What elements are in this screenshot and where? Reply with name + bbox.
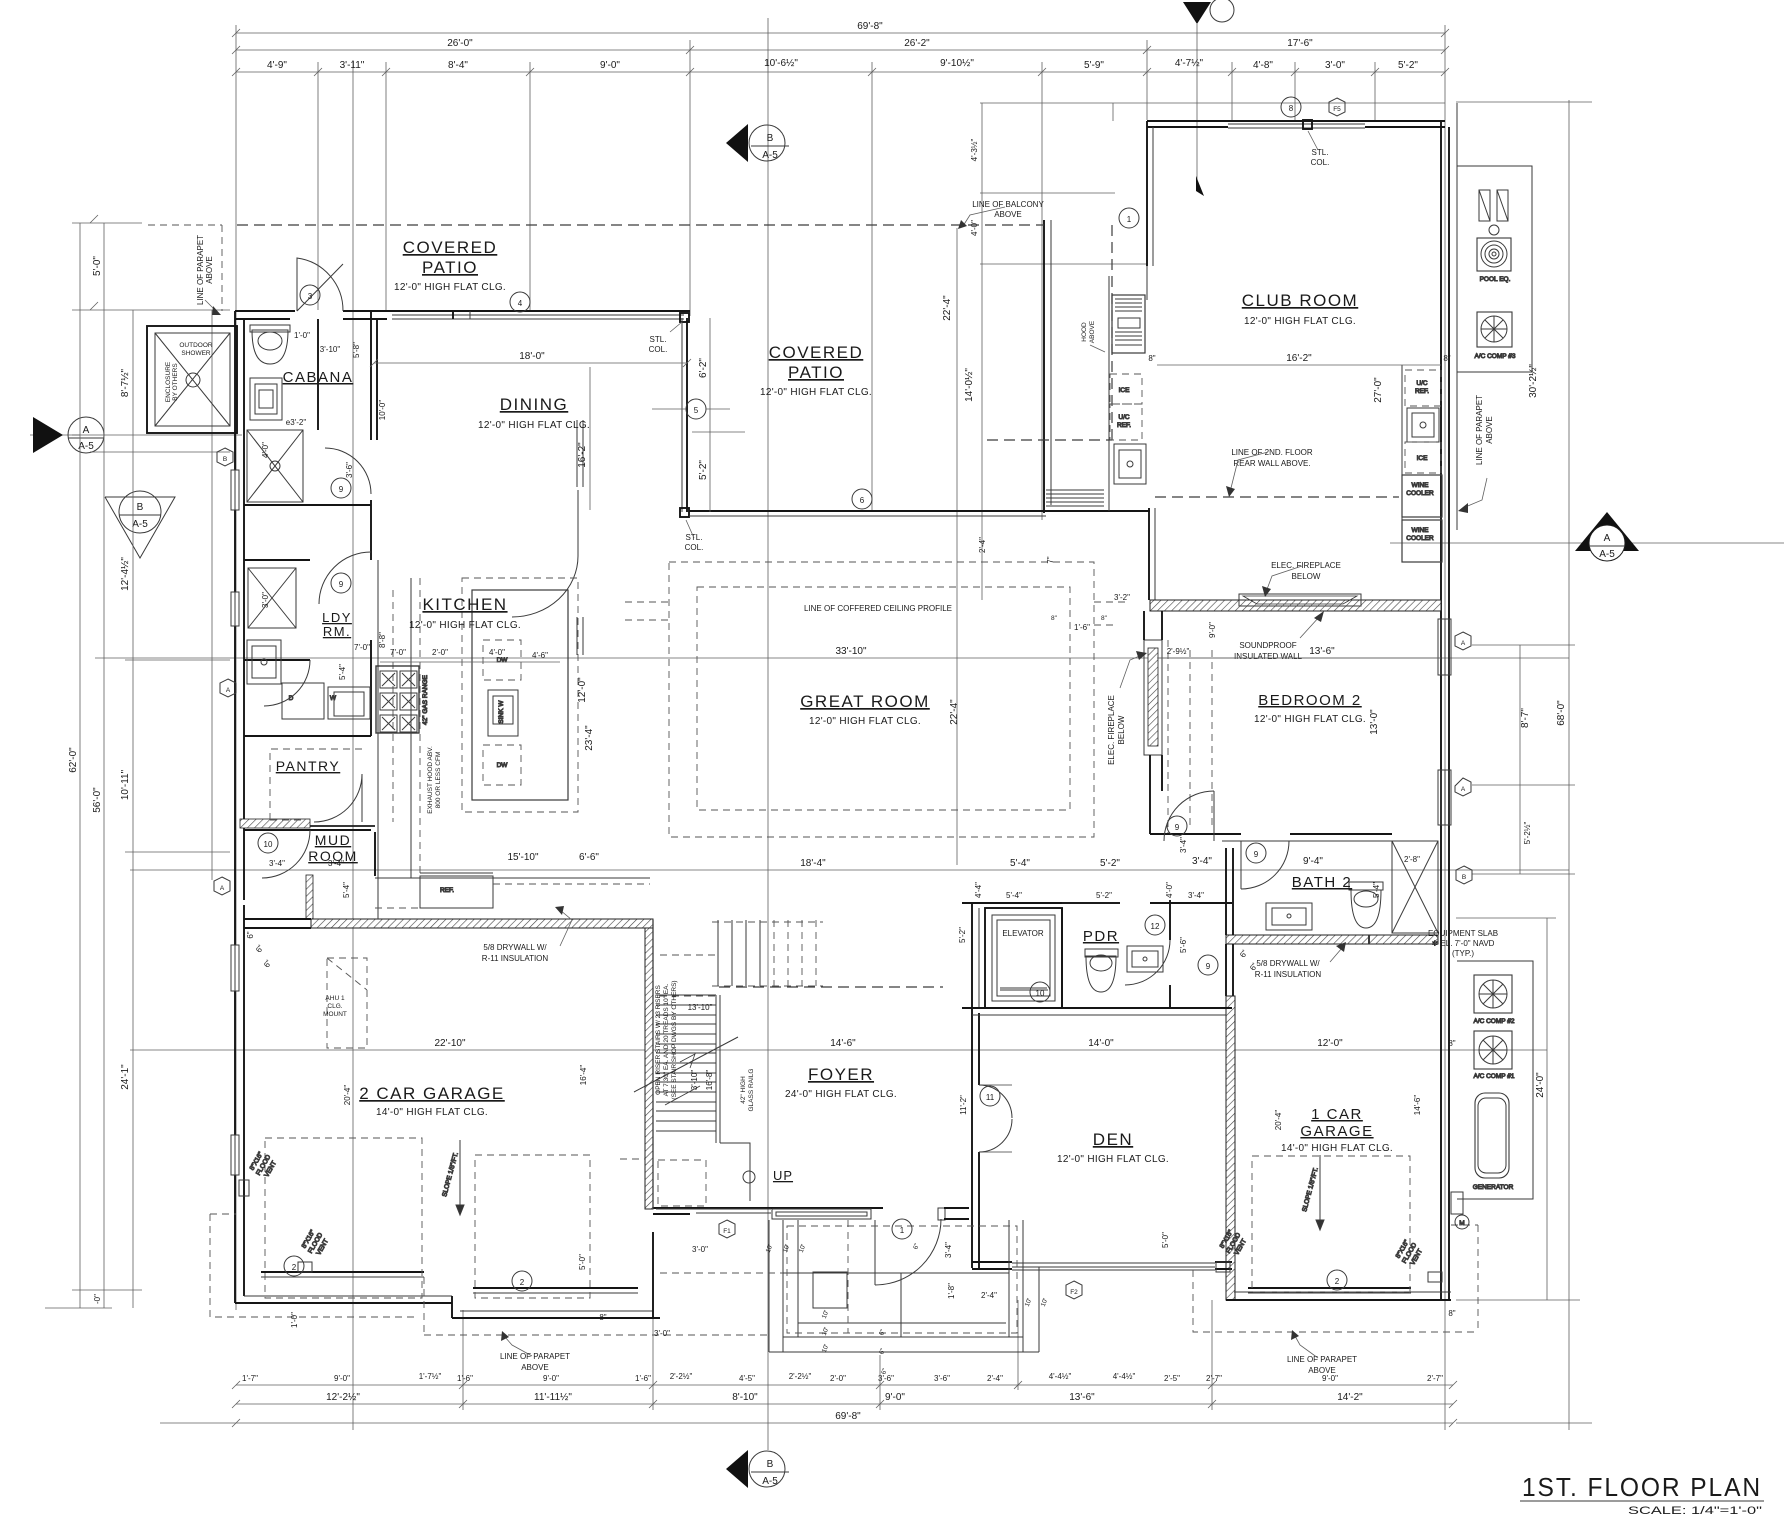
kitchen counter wall line — [378, 560, 411, 919]
dimension tick marks top — [232, 29, 1449, 76]
mudroom west return wall — [244, 832, 375, 928]
svg-text:F5: F5 — [1333, 106, 1341, 113]
svg-text:56'-0": 56'-0" — [92, 787, 103, 813]
svg-text:2'-7": 2'-7" — [1206, 1374, 1222, 1383]
svg-text:4'-4": 4'-4" — [974, 882, 983, 898]
grid bubble 9b — [331, 573, 351, 593]
svg-text:POOL EQ.: POOL EQ. — [1480, 276, 1511, 283]
svg-text:18'-0": 18'-0" — [519, 351, 545, 362]
svg-text:1: 1 — [900, 1226, 905, 1235]
room label ldy rm — [322, 610, 352, 639]
dimension line bottom 69-8 — [160, 1411, 1453, 1423]
svg-text:5'-4": 5'-4" — [1010, 858, 1030, 869]
svg-text:12'-4½": 12'-4½" — [120, 557, 131, 591]
svg-text:U/C: U/C — [1118, 414, 1130, 421]
room label den — [1057, 1130, 1169, 1165]
foyer stair dims — [688, 1003, 713, 1012]
club room north wall — [980, 103, 1445, 128]
grid bubble 2b — [512, 1271, 532, 1291]
svg-text:17'-6": 17'-6" — [1287, 38, 1313, 49]
svg-text:COOLER: COOLER — [1406, 490, 1434, 497]
svg-text:INSULATED WALL: INSULATED WALL — [1234, 652, 1303, 661]
svg-text:4: 4 — [518, 299, 523, 308]
svg-text:9: 9 — [1254, 850, 1259, 859]
svg-text:SHOWER: SHOWER — [181, 350, 211, 357]
pdr fixtures — [1085, 946, 1163, 992]
den double doors — [979, 1085, 1012, 1152]
stairs lower run — [634, 995, 755, 1209]
svg-text:GLASS RAILG: GLASS RAILG — [748, 1069, 755, 1112]
svg-text:A/C COMP #2: A/C COMP #2 — [1473, 1018, 1514, 1025]
svg-text:STL.: STL. — [1312, 148, 1329, 157]
svg-text:3'-0": 3'-0" — [692, 1245, 708, 1254]
dining east wall (patio colonnade) — [682, 318, 687, 512]
svg-text:8": 8" — [599, 1313, 606, 1322]
svg-text:16'-8": 16'-8" — [705, 1070, 714, 1091]
great room east fireplace column — [1144, 611, 1162, 834]
svg-text:COL.: COL. — [685, 543, 704, 552]
svg-text:SCALE: 1/4"=1'-0": SCALE: 1/4"=1'-0" — [1628, 1505, 1762, 1517]
svg-text:WINE: WINE — [1412, 482, 1430, 489]
svg-text:9'-0": 9'-0" — [600, 60, 620, 71]
svg-text:8: 8 — [1289, 104, 1294, 113]
svg-text:14'-6": 14'-6" — [1413, 1095, 1422, 1116]
note 5/8 drywall left — [482, 906, 572, 963]
svg-text:A-5: A-5 — [1599, 549, 1615, 560]
svg-text:4'-7½": 4'-7½" — [1175, 58, 1204, 69]
svg-text:B: B — [767, 133, 774, 144]
svg-text:5'-2": 5'-2" — [698, 460, 709, 480]
grid hexagon A left — [220, 679, 236, 697]
svg-text:ABOVE: ABOVE — [994, 210, 1022, 219]
svg-text:DW: DW — [497, 762, 509, 769]
svg-text:1'-6": 1'-6" — [457, 1374, 473, 1383]
svg-text:5'-8": 5'-8" — [352, 342, 361, 358]
svg-text:LINE OF BALCONY: LINE OF BALCONY — [972, 200, 1044, 209]
grid hexagon B left — [217, 448, 233, 466]
svg-text:BATH 2: BATH 2 — [1292, 874, 1352, 891]
svg-text:5'-2": 5'-2" — [1100, 858, 1120, 869]
svg-text:ABOVE: ABOVE — [521, 1363, 549, 1372]
outdoor shower enclosure — [147, 326, 237, 433]
cabana sink — [250, 378, 282, 420]
svg-text:HOOD: HOOD — [1081, 322, 1088, 342]
flood vent marks garage — [239, 1150, 1442, 1282]
grid hexagon B right — [1455, 778, 1472, 884]
dimension line left inner — [120, 310, 133, 1308]
svg-text:1'-8": 1'-8" — [947, 1283, 956, 1299]
svg-text:14'-2": 14'-2" — [1337, 1392, 1363, 1403]
section line A left horizontal — [30, 434, 242, 436]
long horizontal reference line 33-10 — [95, 657, 1569, 659]
club room right counters — [1402, 365, 1442, 562]
svg-text:800 OR LESS CFM: 800 OR LESS CFM — [435, 752, 442, 809]
svg-text:3'-6": 3'-6" — [934, 1374, 950, 1383]
svg-text:1'-6": 1'-6" — [1074, 623, 1090, 632]
interior dim 6-2 and 5-2 right of dining — [692, 318, 745, 512]
interior dim 1-6 jog — [1051, 615, 1108, 632]
title: 1ST. FLOOR PLAN — [1520, 1472, 1764, 1517]
svg-text:10: 10 — [264, 840, 273, 849]
svg-text:A: A — [220, 885, 225, 892]
svg-text:12'-0" HIGH FLAT CLG.: 12'-0" HIGH FLAT CLG. — [478, 420, 590, 431]
svg-text:COOLER: COOLER — [1406, 535, 1434, 542]
svg-text:KITCHEN: KITCHEN — [422, 595, 507, 614]
svg-text:5'-4": 5'-4" — [342, 882, 351, 898]
svg-text:PANTRY: PANTRY — [276, 758, 341, 774]
note stl col dining top — [649, 322, 682, 354]
vertical dim line 4-0 outdoor kitchen — [970, 103, 1148, 600]
svg-text:DEN: DEN — [1093, 1130, 1133, 1149]
svg-text:9'-0": 9'-0" — [885, 1392, 905, 1403]
dimension line top 69-8 — [236, 21, 1445, 33]
svg-text:8": 8" — [1443, 354, 1450, 363]
cabana small dims — [261, 331, 387, 680]
note line of parapet bottom-left — [500, 1331, 570, 1372]
svg-text:MUD: MUD — [315, 832, 351, 848]
laundry machines — [282, 683, 370, 719]
svg-text:1: 1 — [1127, 215, 1132, 224]
svg-text:4'-6": 4'-6" — [532, 651, 548, 660]
room label club room — [1242, 291, 1358, 327]
garage ahu dashed — [327, 958, 367, 1048]
svg-text:3'-0": 3'-0" — [1325, 60, 1345, 71]
room label covered patio top-left — [394, 238, 506, 293]
svg-text:3'-4": 3'-4" — [1192, 856, 1212, 867]
note line of parapet bottom-right — [1287, 1330, 1357, 1375]
svg-text:LINE OF PARAPET: LINE OF PARAPET — [1475, 395, 1484, 465]
svg-text:2'-7": 2'-7" — [1427, 1374, 1443, 1383]
svg-text:62'-0": 62'-0" — [68, 747, 79, 773]
extension lines bottom — [463, 1300, 1212, 1410]
line of balcony above dashed — [237, 224, 1044, 226]
svg-text:A-5: A-5 — [78, 441, 94, 452]
steel column dining SE — [680, 508, 689, 517]
svg-text:3: 3 — [308, 292, 313, 301]
svg-text:4'-4½": 4'-4½" — [1113, 1372, 1136, 1381]
svg-text:R-11 INSULATION: R-11 INSULATION — [1255, 970, 1322, 979]
dimension line right 68-0 — [1456, 102, 1592, 1423]
svg-text:7'-0": 7'-0" — [354, 643, 370, 652]
coffered ceiling dashed outer — [669, 562, 1094, 837]
svg-text:A/C COMP #1: A/C COMP #1 — [1473, 1073, 1514, 1080]
svg-text:B: B — [137, 502, 144, 513]
svg-text:4'-0": 4'-0" — [261, 442, 270, 458]
svg-text:5'-0": 5'-0" — [1161, 1232, 1170, 1248]
bedroom2 entry door arc — [1164, 791, 1214, 841]
svg-text:26'-0": 26'-0" — [447, 38, 473, 49]
svg-text:AHU 1: AHU 1 — [325, 995, 345, 1002]
svg-text:5'-4": 5'-4" — [338, 664, 347, 680]
svg-text:2'-5": 2'-5" — [1164, 1374, 1180, 1383]
svg-text:5: 5 — [694, 406, 699, 415]
svg-text:9'-0": 9'-0" — [1322, 1374, 1338, 1383]
dimension line top third row — [236, 58, 1445, 72]
svg-text:13'-6": 13'-6" — [1069, 1392, 1095, 1403]
svg-text:DW: DW — [497, 657, 509, 664]
svg-text:GENERATOR: GENERATOR — [1473, 1184, 1514, 1191]
interior dim 18-0 — [370, 351, 691, 367]
svg-text:27'-0": 27'-0" — [1373, 377, 1384, 403]
svg-text:7'-0": 7'-0" — [390, 648, 406, 657]
den walls — [962, 903, 1232, 1270]
svg-text:CLUB ROOM: CLUB ROOM — [1242, 291, 1358, 310]
svg-text:PATIO: PATIO — [788, 363, 844, 382]
svg-text:20'-4": 20'-4" — [343, 1085, 352, 1106]
svg-text:2'-2½": 2'-2½" — [789, 1372, 812, 1381]
section marker B bottom — [726, 1450, 789, 1488]
svg-text:5'-2½": 5'-2½" — [1523, 822, 1532, 845]
svg-text:5'-4": 5'-4" — [1006, 891, 1022, 900]
svg-text:ICE: ICE — [1417, 455, 1429, 462]
mudroom-garage hatched wall — [311, 919, 653, 928]
svg-text:ABOVE: ABOVE — [1485, 416, 1494, 444]
stair west wall hatched — [645, 919, 653, 1209]
svg-text:9'-0": 9'-0" — [334, 1374, 350, 1383]
svg-text:F1: F1 — [723, 1228, 731, 1235]
svg-text:30'-2½": 30'-2½" — [1528, 364, 1539, 398]
svg-text:26'-2": 26'-2" — [904, 38, 930, 49]
svg-text:8'-7½": 8'-7½" — [120, 368, 131, 397]
svg-text:2'-4": 2'-4" — [978, 537, 987, 553]
svg-text:PDR: PDR — [1083, 928, 1119, 945]
kitchen island — [472, 590, 568, 800]
svg-text:A: A — [226, 687, 231, 694]
svg-text:3'-6": 3'-6" — [345, 462, 354, 478]
section marker A right — [1575, 512, 1639, 561]
svg-text:EXHAUST HOOD ABV.: EXHAUST HOOD ABV. — [427, 746, 434, 814]
svg-text:SINK W: SINK W — [498, 700, 505, 724]
grid bubble 9e hall — [1198, 955, 1218, 975]
svg-text:AT 7.30" EA. AND 20 TREADS 10": AT 7.30" EA. AND 20 TREADS 10" EA. — [663, 983, 670, 1096]
svg-text:2'-9½": 2'-9½" — [1167, 647, 1190, 656]
svg-text:5'-2": 5'-2" — [1096, 891, 1112, 900]
great room west boundary posts — [452, 311, 454, 319]
svg-text:15'-10": 15'-10" — [507, 852, 538, 863]
svg-text:14'-0": 14'-0" — [1088, 1038, 1114, 1049]
long horizontal reference line mid garages — [130, 1049, 1547, 1051]
room label dining — [478, 395, 590, 431]
club room west wall upper — [1147, 121, 1153, 266]
svg-text:3'-4": 3'-4" — [269, 859, 285, 868]
svg-text:16'-4": 16'-4" — [579, 1065, 588, 1086]
svg-text:8'-4": 8'-4" — [448, 60, 468, 71]
bottom porch dims — [765, 1242, 1049, 1376]
grid bubble 5 — [652, 399, 730, 419]
svg-text:23'-4": 23'-4" — [584, 725, 595, 751]
svg-text:8'-8": 8'-8" — [378, 632, 387, 648]
elevator cab — [1000, 929, 1048, 990]
svg-text:69'-8": 69'-8" — [835, 1411, 861, 1422]
svg-text:10: 10 — [1036, 989, 1045, 998]
svg-text:8": 8" — [1051, 615, 1058, 622]
svg-text:9: 9 — [339, 485, 344, 494]
room label kitchen — [409, 595, 521, 631]
svg-text:3'-4": 3'-4" — [1188, 891, 1204, 900]
svg-text:ENCLOSURE: ENCLOSURE — [165, 361, 172, 402]
coffered ceiling dashed inner — [697, 587, 1070, 810]
grid hexagon F1 — [719, 1220, 735, 1238]
dimension line bottom fine row — [236, 1372, 1453, 1385]
room label covered patio center — [760, 343, 872, 398]
grid hexagon A left2 — [214, 877, 230, 895]
equipment slab right — [1457, 961, 1533, 1199]
line of 2nd floor rear wall dashed — [1155, 496, 1399, 498]
svg-text:69'-8": 69'-8" — [857, 21, 883, 32]
equipment connection right wall — [1451, 1192, 1469, 1229]
svg-text:A: A — [1461, 640, 1466, 647]
svg-text:3'-2": 3'-2" — [1114, 593, 1130, 602]
svg-text:W: W — [330, 695, 337, 702]
balcony dashed vertical at outdoor kitchen — [987, 225, 1112, 440]
svg-text:9: 9 — [1206, 962, 1211, 971]
svg-text:6: 6 — [860, 496, 865, 505]
section marker B top — [726, 124, 789, 162]
hall door to bath2 — [1241, 841, 1289, 889]
svg-text:FOYER: FOYER — [808, 1065, 874, 1084]
svg-text:ELEC. FIREPLACE: ELEC. FIREPLACE — [1107, 695, 1116, 765]
svg-text:14'-0" HIGH FLAT CLG.: 14'-0" HIGH FLAT CLG. — [376, 1107, 488, 1118]
svg-text:2'-0": 2'-0" — [432, 648, 448, 657]
svg-text:ABOVE: ABOVE — [205, 256, 214, 284]
hall shower 2 — [248, 568, 296, 628]
svg-text:3'-4": 3'-4" — [328, 859, 344, 868]
svg-text:DINING: DINING — [500, 395, 569, 414]
svg-text:8": 8" — [1448, 1309, 1455, 1318]
left column interior partitions — [240, 311, 377, 830]
grid bubble 12 — [1145, 915, 1165, 935]
dimension line bottom second row — [236, 1392, 1453, 1404]
dimension line left 56-0 — [92, 223, 104, 1308]
svg-text:GARAGE: GARAGE — [1300, 1123, 1373, 1140]
svg-text:4'-8": 4'-8" — [1253, 60, 1273, 71]
svg-text:LDY: LDY — [322, 610, 352, 625]
svg-text:B: B — [1462, 874, 1466, 881]
svg-text:2 CAR GARAGE: 2 CAR GARAGE — [359, 1084, 505, 1103]
pool equipment slab — [1457, 166, 1532, 372]
entry door arc — [875, 1219, 941, 1285]
grid bubble 2a — [284, 1256, 304, 1276]
club room west wall lower — [1149, 508, 1155, 600]
svg-text:14'-0" HIGH FLAT CLG.: 14'-0" HIGH FLAT CLG. — [1281, 1143, 1393, 1154]
svg-text:12'-0" HIGH FLAT CLG.: 12'-0" HIGH FLAT CLG. — [1057, 1154, 1169, 1165]
under stair dashed closet — [620, 1159, 706, 1206]
soundproof insulated wall (hatched) — [1150, 594, 1441, 611]
note 5/8 drywall right — [1255, 942, 1346, 979]
svg-text:10'-0": 10'-0" — [378, 400, 387, 421]
garage interior dashed aprons — [265, 1138, 1410, 1298]
extension lines top — [318, 40, 1375, 520]
bath hall walls — [1226, 848, 1233, 996]
parapet line right of east wall — [1456, 103, 1458, 530]
svg-text:22'-4": 22'-4" — [942, 295, 953, 321]
svg-text:4'-9": 4'-9" — [267, 60, 287, 71]
north exterior wall (cabana/dining) — [235, 311, 690, 319]
svg-text:9: 9 — [339, 580, 344, 589]
section marker B diamond left — [105, 491, 175, 558]
svg-text:3'-10": 3'-10" — [320, 345, 341, 354]
svg-text:COL.: COL. — [1311, 158, 1330, 167]
note stl col dining bottom — [685, 520, 704, 552]
svg-text:1'-0": 1'-0" — [290, 1312, 299, 1328]
note line of parapet top-left rotated — [196, 235, 221, 315]
garage bottom small dims — [290, 1232, 1456, 1338]
west wall window breaks — [231, 470, 239, 1175]
svg-text:11'-11½": 11'-11½" — [534, 1392, 572, 1403]
room label mud room — [308, 832, 358, 864]
north arrow marker top — [1183, 0, 1234, 190]
grid bubble 10b — [1030, 982, 1050, 1002]
svg-text:REF.: REF. — [1117, 422, 1131, 429]
svg-text:A-5: A-5 — [762, 1476, 778, 1487]
svg-text:5/8 DRYWALL W/: 5/8 DRYWALL W/ — [1256, 959, 1320, 968]
svg-text:22'-4": 22'-4" — [949, 699, 960, 725]
east exterior wall — [1438, 121, 1451, 1300]
svg-text:8": 8" — [1101, 615, 1108, 622]
svg-text:4'-3½": 4'-3½" — [970, 139, 979, 162]
svg-text:4'-0": 4'-0" — [489, 648, 505, 657]
svg-text:COVERED: COVERED — [403, 238, 498, 257]
vertical reference line far right — [1568, 100, 1570, 1430]
svg-text:4'-4½": 4'-4½" — [1049, 1372, 1072, 1381]
hall doors to kitchen — [264, 420, 583, 706]
svg-text:6'-2": 6'-2" — [698, 358, 709, 378]
garage slope arrows — [441, 1140, 1324, 1230]
svg-text:12'-0" HIGH FLAT CLG.: 12'-0" HIGH FLAT CLG. — [394, 282, 506, 293]
svg-text:BELOW: BELOW — [1117, 715, 1126, 744]
grid bubble 4 — [510, 292, 530, 312]
svg-text:5'-2": 5'-2" — [1398, 60, 1418, 71]
svg-text:1 CAR: 1 CAR — [1311, 1106, 1363, 1123]
note line of 2nd floor rear wall — [1226, 448, 1313, 497]
room label 1 car garage — [1281, 1106, 1393, 1154]
svg-text:8'-10": 8'-10" — [732, 1392, 758, 1403]
svg-text:R-11 INSULATION: R-11 INSULATION — [482, 954, 549, 963]
stair note rotated — [655, 980, 755, 1111]
svg-text:1'-6": 1'-6" — [635, 1374, 651, 1383]
grid bubble 11 — [980, 1086, 1000, 1106]
den pdr small dims — [958, 855, 1420, 953]
svg-text:33'-10": 33'-10" — [835, 646, 866, 657]
svg-text:12'-0": 12'-0" — [1317, 1038, 1343, 1049]
entry porch steps — [769, 1220, 1039, 1352]
room label bedroom 2 — [1254, 692, 1366, 725]
interior dim row mid — [800, 837, 1323, 898]
interior dim 13-6 bedroom — [1157, 646, 1441, 658]
hood above note — [1081, 320, 1105, 352]
interior dims mudroom row — [269, 852, 599, 898]
2 car garage south walls and doors — [235, 1232, 660, 1318]
door swing arrow club room — [1196, 176, 1204, 196]
hall dims near bath2 — [1238, 948, 1260, 972]
one car garage south wall — [1226, 1288, 1451, 1300]
svg-text:1'-7½": 1'-7½" — [419, 1372, 442, 1381]
room label great room — [800, 692, 930, 727]
svg-text:14'-0½": 14'-0½" — [964, 368, 975, 402]
vertical reference line at grid 3-11 — [352, 60, 354, 1430]
svg-text:12'-2½": 12'-2½" — [326, 1392, 360, 1403]
svg-text:1'-0": 1'-0" — [294, 331, 310, 340]
grid bubble 9a — [331, 478, 351, 498]
foyer overhang dashed — [719, 986, 943, 988]
note stl col club room — [1308, 131, 1329, 167]
svg-text:5/8 DRYWALL W/: 5/8 DRYWALL W/ — [483, 943, 547, 952]
svg-text:1ST. FLOOR PLAN: 1ST. FLOOR PLAN — [1522, 1472, 1762, 1502]
svg-text:8": 8" — [1148, 354, 1155, 363]
dimension line top second row — [236, 38, 1445, 50]
svg-text:12'-0" HIGH FLAT CLG.: 12'-0" HIGH FLAT CLG. — [409, 620, 521, 631]
west exterior wall — [235, 311, 244, 1303]
